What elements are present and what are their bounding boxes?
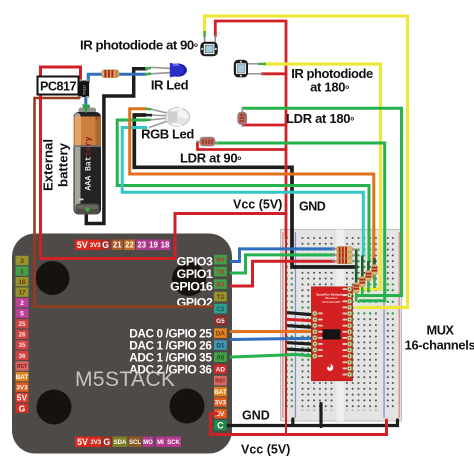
resistor R5 pull-down (353, 250, 359, 302)
breadboard right rail blue line (383, 232, 384, 418)
wire black jumper S1 (288, 326, 316, 328)
wire blue PC817 to battery positive with arrow (84, 96, 87, 106)
battery label text (85, 137, 94, 191)
svg-text:Vcc (5V): Vcc (5V) (233, 198, 282, 212)
breadboard column tick marks (302, 410, 377, 412)
svg-text:External: External (41, 139, 56, 191)
svg-text:AAA: AAA (85, 176, 94, 191)
svg-text:3V3: 3V3 (90, 440, 101, 446)
M5 right pin T0 (214, 267, 227, 277)
M5 left pin 25 (16, 319, 29, 328)
M5 left pin G (16, 403, 29, 413)
svg-text:RGB Led: RGB Led (141, 127, 194, 142)
M5 top pin 3V3 (90, 240, 101, 251)
IR LED body (170, 63, 187, 77)
wire green ADC1 GPIO35 to MUX SIG (231, 355, 316, 358)
mounting hole top-left (36, 261, 70, 295)
M5 top pin 5V (75, 240, 90, 251)
wire blue PC817 to IR LED anode (88, 74, 146, 82)
M5 right pin D1 (214, 340, 227, 350)
wire yellow IR photodiode 180 signal (264, 64, 381, 289)
M5 left pin 5 (16, 309, 29, 318)
MUX flame logo (327, 364, 333, 371)
M5 bottom pin MO (143, 437, 154, 448)
MUX left pin header (313, 311, 323, 358)
M5 top pin 19 (148, 240, 159, 251)
svg-text:G: G (103, 437, 110, 447)
svg-text:G: G (102, 240, 109, 250)
svg-text:AD: AD (216, 366, 226, 373)
svg-text:26: 26 (18, 332, 26, 339)
resistor R1 (IR LED series) (102, 70, 120, 78)
M5 left pin 1 (16, 266, 29, 275)
wire black stub into left rail bottom (291, 419, 294, 426)
breadboard left rail blue line (295, 232, 296, 418)
svg-text:C2: C2 (216, 306, 225, 313)
svg-text:M5STACK: M5STACK (75, 368, 175, 391)
wire red IR photodiode 90 to 5V rail (215, 21, 286, 238)
svg-text:35: 35 (18, 342, 26, 349)
svg-text:18: 18 (161, 241, 170, 250)
M5 right pin DA (214, 328, 227, 338)
resistor R7 pull-down (366, 261, 372, 293)
resistor R2 on breadboard (332, 247, 357, 253)
M5 top pin 21 (112, 240, 124, 251)
M5 right pin AD (214, 364, 227, 374)
svg-text:C: C (217, 421, 224, 431)
breadboard body (281, 229, 402, 421)
M5 bottom pin G (102, 437, 112, 448)
wire green RGB LED green lead to breadboard (117, 120, 369, 262)
wire red GPIO16 to breadboard row (231, 261, 334, 286)
M5 bottom pin SCK (166, 437, 181, 448)
M5 top pin 22 (124, 240, 135, 251)
svg-text:SCL: SCL (129, 440, 141, 446)
wire red jumper rail to MUX VCC (287, 319, 316, 321)
breadboard left rail red line (282, 232, 283, 418)
M5 top pin 18 (160, 240, 171, 251)
M5 left pin 2 (16, 298, 29, 307)
RGB LED body (165, 108, 189, 127)
svg-text:PC817: PC817 (83, 85, 87, 95)
wire red breadboard left power rail (285, 236, 287, 435)
svg-text:D1: D1 (216, 342, 225, 349)
LDR at 180 deg body (238, 108, 247, 127)
M5 left pin 26 (16, 330, 29, 339)
M5 right pin BAT (214, 387, 227, 397)
breadboard right rail red line (399, 232, 400, 418)
svg-text:MI: MI (157, 440, 164, 446)
M5 right pin R2 (214, 279, 227, 289)
wire red LDR 90 lead (198, 142, 287, 150)
svg-text:RST: RST (17, 364, 28, 370)
M5 right pin RST (214, 376, 227, 386)
wire orange DAC0 GPIO25 to MUX EN (231, 330, 316, 334)
wire cyan RGB LED blue lead to breadboard (122, 128, 363, 256)
M5 right pin R0 (214, 255, 227, 265)
wire red LDR 180 lead (243, 124, 286, 127)
IR photodiode 90 leads (205, 33, 216, 44)
svg-text:3V3: 3V3 (16, 384, 28, 391)
M5STACK module body (12, 234, 232, 454)
wire blue GPIO3 to breadboard row (231, 249, 334, 262)
svg-text:battery: battery (56, 142, 71, 187)
svg-text:2: 2 (20, 300, 24, 307)
svg-text:PC817: PC817 (40, 80, 77, 94)
svg-text:+: + (95, 116, 99, 123)
svg-text:21: 21 (113, 241, 122, 250)
resistor R8 pull-down (372, 258, 378, 288)
wire yellow IR photodiode 90 signal (205, 16, 408, 308)
M5 left pin 17 (16, 287, 29, 296)
M5 right pin 5V (214, 409, 227, 419)
M5 right pin G5 (214, 316, 227, 326)
svg-text:LDR at 180o: LDR at 180o (286, 111, 354, 126)
M5 bottom pin MI (156, 437, 166, 448)
wire red IR photodiode 180 lead (262, 72, 286, 75)
IR LED green lead tips (145, 68, 151, 74)
svg-text:CD74HC4067: CD74HC4067 (322, 300, 341, 304)
svg-text:IR Led: IR Led (151, 78, 189, 93)
wire dark-red PC817 emitter to GPIO2 (35, 98, 214, 307)
M5 left pin 16 (16, 277, 29, 286)
svg-text:G5: G5 (216, 318, 225, 325)
M5 right pin T2 (214, 292, 227, 302)
M5 left pin 3 (16, 256, 29, 265)
MUX CD74HC4067 breakout board (311, 287, 352, 381)
svg-text:17: 17 (18, 289, 26, 296)
IR photodiode 180 body (234, 60, 248, 78)
label PC817 box (38, 77, 79, 95)
mounting hole bottom-right (170, 389, 205, 424)
svg-text:Battery: Battery (85, 137, 94, 171)
svg-text:22: 22 (125, 241, 134, 250)
svg-text:36: 36 (18, 353, 26, 360)
M5 bottom pin SDA (113, 437, 128, 448)
wire green GPIO1 to breadboard row (231, 255, 334, 273)
wire black RGB-LED cathode to breadboard ground rail (134, 115, 356, 267)
RGB LED green lead tips (146, 109, 152, 120)
svg-text:G: G (19, 403, 26, 413)
RGB LED black lead tip (146, 114, 153, 117)
wire orange RGB LED red lead to breadboard (130, 109, 374, 278)
M5 bottom pin 5V (75, 437, 90, 448)
wire green LDR 180 signal (243, 108, 402, 295)
breadboard center channel (337, 229, 345, 421)
wire red battery box to PC817 (41, 67, 287, 259)
svg-text:1: 1 (20, 268, 24, 275)
svg-text:A0: A0 (216, 354, 225, 361)
wire black IR-LED cathode to battery negative (86, 69, 146, 224)
svg-text:BAT: BAT (214, 389, 227, 396)
svg-text:3V3: 3V3 (90, 243, 101, 249)
svg-text:23: 23 (137, 241, 146, 250)
M5 left pin 3V3 (16, 382, 29, 391)
svg-text:RST: RST (215, 378, 226, 384)
mounting hole bottom-left (37, 390, 72, 425)
wire green LDR 90 signal (214, 143, 385, 301)
svg-text:DA: DA (216, 330, 226, 337)
svg-text:GND: GND (299, 200, 326, 214)
M5 top pin 23 (136, 240, 148, 251)
svg-text:GND: GND (242, 409, 270, 423)
MUX right pin header (343, 287, 352, 377)
M5 right pin C (214, 420, 227, 430)
svg-text:GPIO16: GPIO16 (170, 280, 213, 294)
svg-text:5V: 5V (17, 393, 28, 403)
M5 right pin C2 (214, 304, 227, 314)
mounting hole top-right (172, 262, 206, 296)
svg-text:MUX: MUX (427, 323, 455, 338)
breadboard holes (301, 237, 393, 407)
PC817 optocoupler body (78, 79, 89, 98)
resistor R6 pull-down (359, 256, 365, 298)
wire black jumper bottom rail to row (319, 404, 322, 427)
wire blue DAC1 GPIO26 to MUX (231, 338, 316, 339)
IR photodiode 90 green tip (203, 31, 205, 37)
svg-text:3V3: 3V3 (215, 399, 227, 406)
svg-text:T0: T0 (217, 269, 225, 276)
svg-text:16: 16 (18, 279, 26, 286)
svg-text:SCK: SCK (167, 440, 180, 446)
svg-text:5: 5 (20, 311, 24, 318)
M5 right pin A0 (214, 352, 227, 362)
M5 bottom pin 3V3 (90, 437, 101, 448)
LDR at 90 deg body (196, 137, 218, 146)
wire black jumper S3 (288, 349, 316, 351)
M5 left pin 36 (16, 351, 29, 360)
wire black jumper S0 (288, 313, 316, 315)
battery AAA body (74, 105, 102, 215)
M5 left pin BAT (16, 372, 29, 381)
M5 right pin 3V3 (214, 397, 227, 407)
M5 left pin 5V (16, 393, 29, 403)
M5 left pin RST (16, 361, 29, 370)
svg-text:at 180o: at 180o (310, 80, 349, 95)
svg-text:25: 25 (18, 321, 26, 328)
svg-text:5V: 5V (77, 437, 88, 447)
M5 bottom pin SCL (129, 437, 142, 448)
IR photodiode 180 leads (246, 64, 263, 74)
svg-text:16-channels: 16-channels (405, 338, 474, 353)
svg-text:BAT: BAT (16, 374, 29, 381)
svg-text:SDA: SDA (114, 440, 127, 446)
MUX IC chip (322, 329, 340, 339)
svg-text:MO: MO (143, 440, 153, 446)
svg-text:5V: 5V (77, 240, 88, 250)
wire black jumper S2 (288, 343, 316, 345)
wire black bottom GND bus M5 C pin to breadboard (228, 420, 398, 426)
svg-text:LDR at 90o: LDR at 90o (180, 151, 241, 166)
svg-text:Vcc (5V): Vcc (5V) (241, 443, 290, 457)
M5 top pin G (101, 240, 110, 251)
IR photodiode 90 body (200, 42, 218, 56)
svg-text:R2: R2 (216, 281, 225, 288)
breadboard connected holes (green) (286, 237, 394, 408)
RGB LED leads (149, 109, 169, 128)
M5 left pin 35 (16, 340, 29, 349)
resistor R3 on breadboard (332, 252, 357, 258)
IR LED leads (150, 67, 172, 74)
svg-text:R0: R0 (216, 257, 225, 264)
IR photodiode 180 green tip (258, 63, 266, 65)
resistor R4 on breadboard (332, 258, 357, 264)
svg-text:3: 3 (20, 258, 24, 265)
svg-text:19: 19 (149, 241, 158, 250)
wire red 5V pin of M5 to breadboard rails (211, 414, 387, 435)
svg-text:IR photodiode at 90o: IR photodiode at 90o (80, 38, 198, 53)
svg-text:T2: T2 (217, 294, 225, 301)
